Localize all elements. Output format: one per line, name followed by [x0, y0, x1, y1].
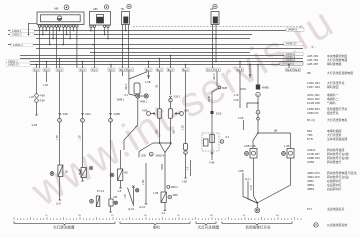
svg-text:8.1B: 8.1B — [216, 112, 222, 116]
svg-text:8M8: 8M8 — [222, 86, 228, 90]
connector stub right of 87 3-4 — [125, 186, 139, 212]
third eyelet component — [110, 150, 128, 193]
svg-text:41B6 DK: 41B6 DK — [307, 111, 319, 115]
svg-text:F1B7 1B3: F1B7 1B3 — [307, 85, 320, 89]
svg-text:4M8.4: 4M8.4 — [171, 185, 179, 189]
svg-text:87 3-4: 87 3-4 — [97, 189, 105, 193]
svg-text:大灯清洗装置: 大灯清洗装置 — [53, 225, 75, 230]
legend ground symbol circled — [314, 223, 318, 227]
svg-text:X28B: X28B — [114, 112, 121, 116]
svg-text:1M0.5: 1M0.5 — [214, 73, 216, 80]
relay K8 — [210, 7, 219, 25]
svg-text:14066-13: 14066-13 — [286, 42, 298, 46]
turn lamp socket left — [244, 144, 257, 196]
label X8001-1 (left) — [6, 60, 30, 64]
pin drop wires A86 — [91, 29, 108, 68]
label 14001-3 (left) — [11, 43, 33, 47]
svg-text:A80: A80 — [54, 7, 59, 11]
svg-text:X4.3: X4.3 — [207, 69, 213, 72]
svg-text:14001-2: 14001-2 — [12, 33, 22, 37]
svg-text:8B: 8B — [274, 129, 277, 133]
svg-text:主接地连接点: 主接地连接点 — [327, 206, 344, 211]
wire drop x46 — [43, 71, 48, 87]
switch component on x165 — [153, 153, 178, 216]
pin numbers A80 — [39, 30, 78, 32]
svg-text:G: G — [169, 196, 171, 199]
svg-text:9B: 9B — [307, 71, 311, 75]
wire drop x111 with splice — [109, 71, 121, 199]
svg-text:1.5M: 1.5M — [143, 180, 145, 185]
washer pump M1 — [142, 109, 162, 119]
svg-text:X4.1: X4.1 — [80, 69, 86, 72]
short wire x190 — [187, 160, 190, 176]
svg-text:G: G — [150, 153, 152, 156]
svg-text:1M: 1M — [156, 85, 158, 88]
svg-text:X4.1: X4.1 — [34, 69, 40, 72]
svg-text:Ba.B: Ba.B — [237, 69, 243, 72]
label 14066-13 (right end) — [284, 42, 303, 46]
svg-text:Ba.4: Ba.4 — [157, 69, 163, 72]
svg-text:(1-8: (1-8 — [56, 202, 61, 206]
svg-text:8.1: 8.1 — [125, 93, 129, 97]
brace 4 hazard group — [222, 222, 292, 225]
svg-text:4-1B: 4-1B — [234, 95, 239, 97]
svg-text:2.1B: 2.1B — [238, 116, 244, 120]
svg-text:1B: 1B — [65, 170, 68, 174]
label 14066-3 (right end) — [286, 58, 296, 62]
bus wire 14001-1 — [8, 30, 304, 32]
svg-text:Ba.4: Ba.4 — [183, 69, 189, 72]
svg-text:Ba.1: Ba.1 — [146, 69, 152, 72]
svg-text:4M8.1: 4M8.1 — [140, 100, 148, 104]
brace 1 headlamp washer group — [14, 222, 115, 225]
pin drop wires K8 — [213, 25, 217, 69]
fuse chain x185 — [182, 71, 188, 183]
svg-text:B1 (4): B1 (4) — [307, 118, 315, 122]
bus wire N3 — [36, 38, 250, 40]
bus wire 170/10 — [8, 64, 303, 66]
svg-text:B8: B8 — [125, 171, 129, 175]
connector pins of A80 — [38, 25, 78, 30]
wire drop x82 with splice — [79, 71, 91, 167]
svg-text:G: G — [257, 111, 259, 114]
svg-text:1-1B: 1-1B — [29, 97, 34, 99]
svg-text:7B: 7B — [121, 7, 124, 11]
vertical wire stubs bus to X4 row — [37, 56, 290, 69]
svg-text:X28+: X28+ — [85, 112, 92, 116]
right stub 2.18 — [238, 116, 244, 130]
svg-text:G: G — [110, 119, 112, 123]
pin drop wires from A80 to buses — [40, 29, 77, 68]
pins of A86 — [90, 25, 109, 29]
svg-text:危险报警灯开关: 危险报警灯开关 — [246, 225, 272, 230]
svg-text:14066-3: 14066-3 — [286, 58, 296, 62]
svg-text:4-8B 1.0B: 4-8B 1.0B — [244, 144, 256, 148]
svg-text:X4.3: X4.3 — [214, 69, 220, 72]
svg-text:K14B 1B6: K14B 1B6 — [307, 101, 320, 105]
wire stub x148 — [145, 71, 151, 84]
svg-text:(-2B: (-2B — [182, 180, 187, 184]
brace 2 horn group — [120, 222, 190, 225]
connector box A80 (fuse/relay box) — [37, 7, 84, 25]
svg-text:M2.1: M2.1 — [127, 69, 133, 72]
svg-text:170/10-0.5: 170/10-0.5 — [282, 62, 295, 66]
svg-text:Ba.4: Ba.4 — [168, 69, 174, 72]
svg-text:14001-1: 14001-1 — [12, 29, 22, 33]
washer pump M2 — [168, 109, 189, 119]
svg-text:2-2: 2-2 — [162, 211, 166, 215]
svg-text:组合开关: 组合开关 — [327, 110, 339, 115]
svg-text:1-88: 1-88 — [184, 109, 190, 113]
svg-text:G: G — [169, 99, 171, 102]
wire stub x250 — [249, 64, 251, 78]
svg-text:大灯开关提醒: 大灯开关提醒 — [198, 224, 220, 229]
lamp pair with fuse (headlamp washer) — [117, 71, 148, 150]
svg-text:Ba.B: Ba.B — [294, 69, 300, 72]
svg-text:G: G — [81, 119, 83, 123]
svg-text:1-0B: 1-0B — [145, 80, 151, 84]
svg-text:3-1B: 3-1B — [32, 123, 38, 127]
svg-text:全车线束插接器: 全车线束插接器 — [327, 136, 347, 141]
svg-text:喇叭: 喇叭 — [153, 225, 161, 230]
bus wire 14066-13 — [8, 44, 303, 46]
svg-text:M8: M8 — [114, 195, 118, 199]
svg-text:G: G — [257, 93, 259, 97]
bus wire 14001-6 — [20, 55, 303, 57]
svg-text:A86: A86 — [93, 7, 98, 11]
svg-text:G: G — [221, 141, 223, 144]
svg-text:20B: 20B — [141, 154, 146, 158]
svg-text:2-1B: 2-1B — [251, 185, 253, 190]
label 14066-5 (right end) — [286, 28, 304, 32]
svg-text:5M82-4: 5M82-4 — [156, 154, 165, 158]
svg-text:14001-3: 14001-3 — [13, 43, 23, 47]
svg-text:4M8: 4M8 — [173, 193, 179, 197]
fuse component on x82 — [79, 166, 93, 181]
component 87 3-4 (bottom left) — [90, 189, 105, 207]
clock symbol above K8 — [213, 4, 217, 8]
pins of K7 — [123, 25, 129, 30]
svg-text:4-8B: 4-8B — [238, 169, 244, 173]
svg-text:大灯清洗泵电机: 大灯清洗泵电机 — [327, 117, 347, 122]
svg-text:2-0B: 2-0B — [234, 100, 239, 102]
right stub 4.18 — [238, 169, 244, 197]
pin drop wires K7 — [123, 29, 129, 68]
svg-text:G: G — [184, 152, 186, 155]
svg-text:14001-1Y: 14001-1Y — [8, 63, 20, 67]
svg-text:1M4B: 1M4B — [209, 96, 211, 102]
svg-text:喇叭继电器: 喇叭继电器 — [327, 61, 342, 66]
svg-text:X4.1: X4.1 — [57, 69, 63, 72]
svg-text:14066-5: 14066-5 — [288, 28, 298, 32]
legend column — [307, 45, 357, 227]
svg-text:① ↑: ① ↑ — [311, 45, 316, 49]
label 14001-1 (left) — [10, 29, 34, 33]
ground funnel bottom right — [243, 177, 260, 213]
wire code text row — [133, 25, 302, 27]
wire from A80 left to bus — [29, 23, 38, 34]
fuse M8 on x111 — [109, 195, 118, 212]
ruler numbers — [45, 215, 279, 217]
svg-text:4M8B: 4M8B — [262, 86, 269, 90]
funnel join — [139, 118, 176, 157]
svg-text:X28+: X28+ — [63, 112, 70, 116]
svg-text:1-88: 1-88 — [153, 191, 159, 195]
svg-text:4BB2: 4BB2 — [307, 187, 314, 191]
svg-text:1M0B: 1M0B — [162, 164, 164, 170]
svg-text:M2.1: M2.1 — [120, 69, 126, 72]
svg-text:1.0B: 1.0B — [284, 144, 290, 148]
connector 5M82-4 — [139, 163, 147, 209]
svg-text:(3-24: (3-24 — [128, 207, 135, 211]
svg-text:气喇叭: 气喇叭 — [327, 100, 336, 105]
wire drop x36 with splice — [29, 71, 45, 127]
svg-text:1M8: 1M8 — [174, 129, 176, 134]
svg-text:转向警告灯: 转向警告灯 — [327, 159, 342, 164]
label 14001-1Y (left) — [6, 63, 30, 67]
svg-text:1M8: 1M8 — [157, 129, 159, 134]
bus wire 14066-3 — [8, 61, 303, 63]
svg-text:1.5B: 1.5B — [57, 135, 59, 140]
ruler tick marks — [14, 217, 301, 220]
hazard flasher chain x258 — [247, 65, 291, 149]
washer switch component on x60 — [50, 165, 68, 206]
svg-text:Ba.B: Ba.B — [286, 69, 292, 72]
connector box A86 (relay) — [90, 7, 111, 25]
wire x240 L — [234, 71, 247, 108]
X4 connector label row — [33, 68, 301, 71]
label 170/10-0.5 (right end boxed) — [280, 62, 303, 66]
svg-text:P17: P17 — [307, 207, 313, 211]
svg-text:1-4B: 1-4B — [43, 85, 48, 87]
svg-text:BYB: BYB — [307, 137, 313, 141]
bus wire N5 — [36, 48, 303, 50]
turn lamp socket right — [258, 144, 294, 203]
svg-text:4.4B: 4.4B — [209, 161, 215, 165]
svg-text:仪表板线束接地: 仪表板线束接地 — [327, 222, 347, 227]
bus wire 14001-2 — [8, 34, 252, 36]
svg-text:4-88: 4-88 — [40, 94, 46, 98]
svg-text:K2B8: K2B8 — [307, 160, 314, 164]
brace 3 — [196, 222, 216, 225]
svg-text:0.5B: 0.5B — [182, 125, 184, 130]
svg-text:1M0.5: 1M0.5 — [126, 83, 128, 90]
clock symbol above A80 — [64, 5, 69, 10]
svg-text:8M8.1: 8M8.1 — [117, 98, 125, 102]
svg-text:X4.1: X4.1 — [109, 69, 115, 72]
svg-text:(2-24: (2-24 — [139, 205, 146, 209]
label 14001-2 (left) — [10, 33, 34, 37]
hazard switch chain x212 — [202, 71, 230, 164]
svg-text:2-8: 2-8 — [118, 189, 122, 193]
label 14066-4 (right end) — [286, 55, 296, 59]
svg-text:(4-1): (4-1) — [245, 177, 251, 181]
svg-text:1.0B: 1.0B — [125, 194, 127, 199]
svg-text:A4B 4B7: A4B 4B7 — [307, 62, 319, 66]
wire drop x60 long with splice circle — [57, 71, 69, 165]
bus wire N5b — [90, 52, 250, 54]
wire stub x122 — [122, 71, 124, 76]
svg-text:4-98: 4-98 — [40, 99, 46, 103]
svg-text:G: G — [59, 119, 61, 123]
relay K7 — [121, 7, 130, 25]
svg-text:8.2: 8.2 — [226, 135, 230, 139]
bus wire 14066-4 — [20, 58, 303, 60]
svg-text:右后转向灯: 右后转向灯 — [327, 186, 342, 191]
svg-text:喇叭按钮: 喇叭按钮 — [327, 84, 339, 89]
svg-text:X4.1: X4.1 — [92, 69, 98, 72]
clock symbol above A86 — [104, 5, 108, 9]
svg-text:X28.1: X28.1 — [174, 95, 181, 99]
svg-text:1.5B: 1.5B — [79, 135, 81, 140]
svg-text:大灯清洗装置继电器: 大灯清洗装置继电器 — [327, 70, 353, 75]
washer pump left branch — [156, 71, 180, 108]
svg-text:X4.1: X4.1 — [44, 69, 50, 72]
clock symbol above K7 — [127, 4, 131, 8]
svg-text:4-88: 4-88 — [142, 109, 148, 113]
label 14001-6 (right end) — [284, 52, 303, 56]
junction dots row A80 — [42, 30, 74, 46]
